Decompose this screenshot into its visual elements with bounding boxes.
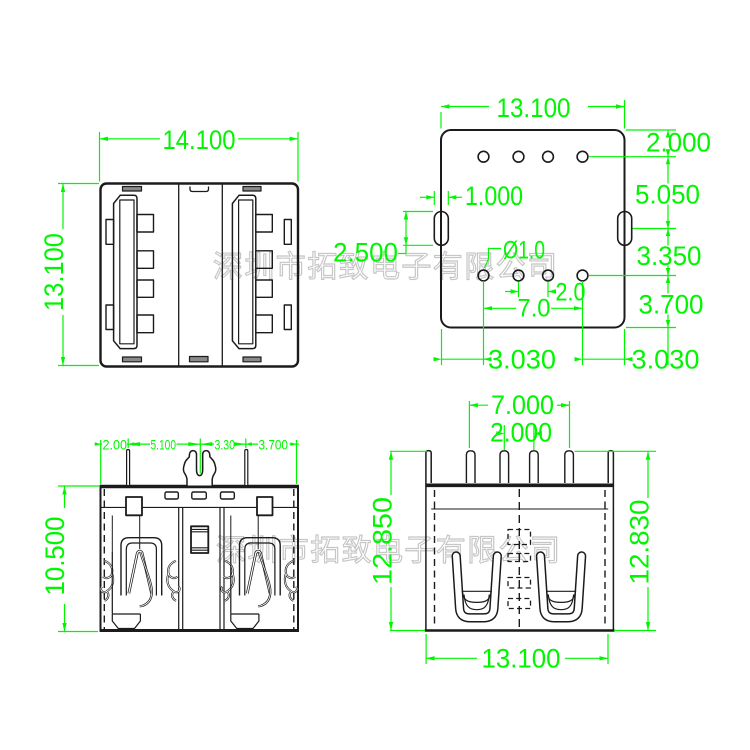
view C top edge thick <box>100 485 300 488</box>
view B bottom holes <box>478 270 588 281</box>
view C hidden line right <box>293 489 295 629</box>
top chain extensions <box>100 440 102 484</box>
view B dimensions <box>398 100 676 365</box>
dim 14.100 line <box>100 138 161 140</box>
svg-text:2.0: 2.0 <box>556 279 586 307</box>
leader diameter 1.0 <box>485 249 502 269</box>
view D center hidden line <box>518 489 520 629</box>
view C top slots <box>165 492 234 499</box>
view C right square <box>257 497 273 515</box>
svg-text:2.500: 2.500 <box>333 238 398 268</box>
svg-text:1.000: 1.000 <box>465 181 523 211</box>
dim 7.000 extensions <box>468 401 470 448</box>
view C center window <box>191 526 208 553</box>
view D left wall <box>426 451 431 631</box>
view A left edge window lower <box>106 305 114 330</box>
dim 3.030 left <box>441 329 443 365</box>
svg-text:2.000: 2.000 <box>646 128 711 158</box>
svg-text:3.030: 3.030 <box>632 345 700 375</box>
view C dimensions <box>58 439 299 632</box>
view A center channel wall right <box>221 185 223 366</box>
view A left edge window upper <box>106 220 114 245</box>
view A top tab right <box>243 187 261 192</box>
dim 1.000 <box>433 191 435 205</box>
svg-text:3.350: 3.350 <box>637 241 702 271</box>
view C body outline <box>101 486 299 631</box>
view B body outline <box>441 130 625 328</box>
view A left rail inner <box>120 200 134 344</box>
view A right edge window lower <box>284 305 291 330</box>
dim 13.100 bottom extensions <box>425 634 427 664</box>
dim 12.830 line <box>647 451 649 498</box>
view A bottom tab right <box>243 357 261 362</box>
svg-text:5.050: 5.050 <box>635 180 700 210</box>
svg-text:7.000: 7.000 <box>491 390 554 420</box>
dim 14.100 extension lines <box>99 132 101 182</box>
view C center latch <box>183 451 215 486</box>
view C hidden line left <box>103 489 105 629</box>
dim 7.000 line <box>469 404 488 406</box>
svg-text:3.700: 3.700 <box>259 437 289 453</box>
view A left rail outer <box>114 195 137 348</box>
dim 12.850 extensions <box>390 450 427 452</box>
right chain extension lines <box>626 129 676 131</box>
dim 13.100 bottom line <box>426 657 477 659</box>
view D hidden box 4 <box>508 599 531 609</box>
dim 7.0 <box>483 281 485 365</box>
svg-text:13.100: 13.100 <box>497 93 571 123</box>
svg-text:14.100: 14.100 <box>163 125 236 155</box>
dim 13.100 extension lines <box>58 183 99 185</box>
dim 12.850 line <box>390 451 392 495</box>
view D top edge thick <box>426 483 614 487</box>
view D hidden line left <box>434 490 436 628</box>
view A right rail outer <box>232 195 255 348</box>
view A top tab left <box>123 187 142 192</box>
dim 3.030 right <box>624 329 626 365</box>
top chain dim line <box>97 443 102 445</box>
svg-text:12.850: 12.850 <box>368 497 398 585</box>
view C left pin <box>127 450 130 486</box>
view C bottom edge thick <box>100 629 300 632</box>
svg-text:2.00: 2.00 <box>103 437 128 453</box>
view A top tab middle <box>190 187 209 192</box>
view C hook 3 <box>222 561 234 601</box>
view D hidden box 1 <box>508 530 531 545</box>
view C channel walls <box>179 507 224 629</box>
svg-text:10.500: 10.500 <box>40 517 70 596</box>
svg-text:3.700: 3.700 <box>639 290 704 320</box>
dim 2.0 <box>518 282 520 297</box>
view A center channel wall left <box>178 185 180 366</box>
svg-text:3.30: 3.30 <box>215 437 236 453</box>
dim 13.100 line <box>62 184 64 230</box>
view D right wall <box>608 451 613 631</box>
dim 10.500 line <box>64 486 66 508</box>
view C inner horizontal line <box>102 506 298 508</box>
view C right claw <box>231 516 280 629</box>
view C left claw <box>112 516 161 629</box>
view A bottom tab middle <box>190 357 209 362</box>
right chain dim line <box>667 130 669 132</box>
view D left U spring <box>456 556 497 618</box>
view D hidden line right <box>604 490 606 628</box>
view D right U spring <box>541 556 582 618</box>
svg-text:13.100: 13.100 <box>482 644 561 674</box>
dim 2.500 <box>403 211 433 213</box>
view D inner line <box>431 508 608 510</box>
view A dimensions <box>58 132 298 366</box>
view D hidden box 2 <box>508 554 531 562</box>
svg-text:13.100: 13.100 <box>39 233 69 311</box>
view B top holes <box>478 151 588 162</box>
view A body outline <box>101 184 299 367</box>
view C contact strip lines overdraw <box>112 552 231 613</box>
dim 2.000 extensions <box>503 425 505 450</box>
view D bottom edge thick <box>425 629 615 632</box>
view B right side peg <box>618 212 632 246</box>
svg-text:3.030: 3.030 <box>488 345 556 375</box>
svg-text:Ø1.0: Ø1.0 <box>503 237 545 265</box>
view C hook 2 mirrored <box>167 561 179 601</box>
view A right rail inner <box>239 200 253 344</box>
view A right edge window upper <box>284 220 291 245</box>
dim 13.100 top <box>440 112 442 129</box>
view A right rail contacts <box>256 215 272 333</box>
view D hidden box 3 <box>508 578 531 589</box>
view C hook 4 mirrored <box>285 561 297 601</box>
dim 12.830 extensions <box>575 450 657 452</box>
dim 10.500 extensions <box>58 485 99 487</box>
view B left side peg <box>434 212 448 246</box>
view C hook 1 <box>101 561 113 601</box>
svg-text:12.830: 12.830 <box>625 500 655 585</box>
view D pins <box>466 451 573 483</box>
view A bottom tab left <box>123 357 142 362</box>
view C right pin <box>245 450 248 486</box>
view A left rail contacts <box>137 215 154 333</box>
view D dimensions <box>389 401 656 664</box>
view C left square <box>126 497 142 515</box>
svg-text:7.0: 7.0 <box>518 295 551 323</box>
svg-text:5.100: 5.100 <box>151 437 177 453</box>
svg-text:2.000: 2.000 <box>490 418 552 448</box>
